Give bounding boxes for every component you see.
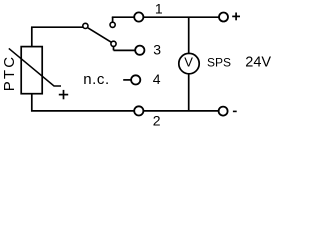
svg-text:1: 1 — [155, 1, 163, 17]
switch S1 blade — [88, 28, 111, 42]
wire: n.c. stub — [123, 79, 131, 81]
wire: upper contact stub — [112, 17, 114, 22]
minus sign — [233, 110, 237, 112]
wire: top-left horizontal to switch pole — [31, 26, 83, 28]
wire: net 3 horizontal — [114, 49, 136, 51]
terminal plus circle — [219, 13, 228, 22]
switch lower contact — [111, 41, 116, 46]
wire: lower contact stub — [113, 46, 115, 50]
wire: PTC bottom lead — [32, 94, 219, 111]
wire: net 1 horizontal — [112, 16, 219, 18]
svg-text:SPS: SPS — [207, 55, 231, 69]
terminal 4 circle — [131, 75, 140, 84]
terminal 2 circle — [134, 106, 143, 115]
svg-text:V: V — [184, 55, 193, 70]
svg-text:2: 2 — [153, 112, 161, 127]
svg-text:24V: 24V — [245, 55, 271, 71]
thermistor plus mark — [59, 90, 68, 99]
terminal 1 circle — [134, 12, 143, 21]
svg-text:n.c.: n.c. — [83, 71, 110, 88]
thermistor RT1 body — [21, 47, 42, 94]
terminal 3 circle — [135, 46, 144, 55]
svg-text:4: 4 — [153, 71, 161, 87]
thermistor diagonal stroke — [9, 48, 61, 86]
svg-text:3: 3 — [153, 42, 161, 58]
svg-text:PTC: PTC — [1, 55, 18, 92]
plus sign — [232, 13, 240, 21]
voltmeter V1 circle — [179, 53, 199, 73]
switch S1 pole contact — [83, 23, 88, 28]
wire: right bus upper segment — [188, 17, 190, 53]
terminal minus circle — [219, 107, 228, 116]
switch upper contact — [110, 22, 115, 27]
wire: right bus lower segment — [188, 74, 190, 111]
wire: PTC top lead — [31, 27, 33, 46]
